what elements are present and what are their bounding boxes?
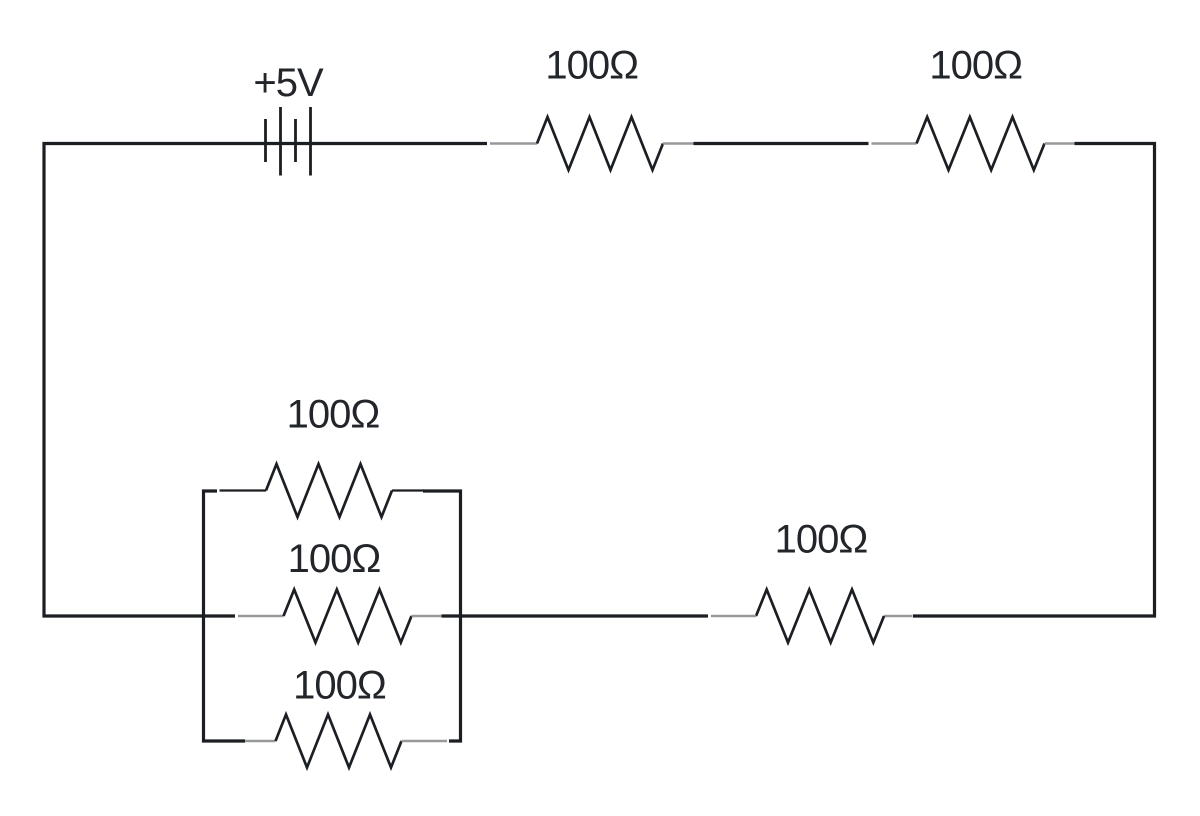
resistor R3a zigzag (parallel top) (266, 464, 392, 517)
resistor R3b right lead (gray) (412, 615, 442, 618)
resistor R3b zigzag (parallel middle) (284, 590, 412, 643)
resistor R2 left lead (gray) (872, 142, 917, 145)
svg-text:100Ω: 100Ω (775, 518, 868, 562)
svg-text:100Ω: 100Ω (545, 44, 638, 88)
battery B1 bar 2 (long) (279, 107, 282, 176)
resistor R1 left lead (gray) (490, 142, 537, 145)
wire: left vertical + top-left segment to battery/R1 (44, 144, 487, 617)
resistor R5 right lead (gray) (884, 615, 913, 618)
wire: top branch right (392, 489, 424, 491)
svg-text:100Ω: 100Ω (287, 393, 380, 437)
resistor R1 zigzag (537, 117, 663, 170)
resistor R3b left lead (gray, parallel middle) (238, 615, 284, 618)
battery B1 bar 4 (long) (309, 107, 312, 176)
resistor R1 right lead (gray) (663, 142, 694, 145)
resistor R3c left lead (gray, parallel bottom) (245, 740, 276, 743)
wire: bottom middle between parallel group and R5 (442, 614, 709, 617)
wire: between R1 and R2 (694, 142, 869, 145)
svg-text:100Ω: 100Ω (293, 664, 386, 708)
battery B1 +5V bar 1 (short) (264, 119, 267, 162)
parallel group left bus with top stub (204, 491, 246, 741)
battery B1 bar 3 (short) (294, 119, 297, 162)
resistor R2 right lead (gray) (1045, 142, 1075, 145)
svg-text:100Ω: 100Ω (288, 537, 381, 581)
wire: top-right corner + right vertical + bottom-right segment (913, 144, 1155, 617)
resistor R3c right lead (gray) (402, 740, 448, 743)
resistor R2 zigzag (917, 117, 1045, 170)
svg-text:+5V: +5V (253, 61, 324, 105)
svg-text:100Ω: 100Ω (929, 44, 1022, 88)
resistor R3c zigzag (parallel bottom) (276, 715, 402, 768)
wire: top branch left (220, 489, 267, 491)
resistor R5 zigzag (bottom right) (756, 590, 884, 643)
parallel group right bus with stubs (423, 491, 461, 741)
resistor R5 left lead (gray) (711, 615, 756, 618)
